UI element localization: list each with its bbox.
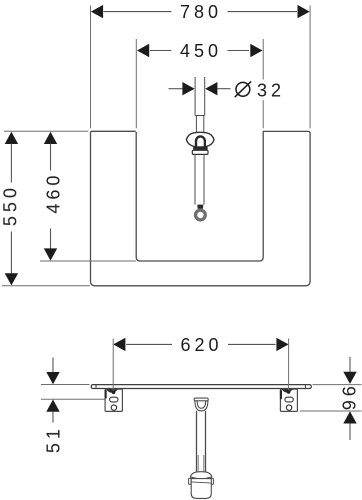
left bracket body: [105, 389, 122, 411]
left bracket screw hole: [111, 405, 116, 410]
trap cup body: [191, 479, 211, 499]
dimension 96 top extension line: [313, 384, 362, 386]
trap cup collar: [191, 472, 212, 479]
dimension Ø32 right tail line: [217, 88, 230, 90]
extension line left (450 dim, x=136.3): [135, 39, 137, 128]
dimension 780 left arrow: [91, 5, 103, 18]
dimension 96 bottom extension line: [300, 410, 362, 412]
trap inlet flange: [194, 398, 208, 401]
svg-text:780: 780: [180, 2, 222, 22]
right bracket slot: [285, 397, 293, 402]
diameter symbol: [236, 82, 250, 96]
extension line bottom left (550, y=285.8): [2, 285, 90, 287]
dimension Ø32 left arrow: [182, 82, 194, 95]
pull rod upper section / Ø32 extension lines: [194, 77, 196, 116]
dimension 620 line segments: [126, 343, 172, 345]
svg-text:620: 620: [180, 335, 222, 355]
svg-text:460: 460: [44, 172, 64, 214]
extension line left (780 dim, x=90.5): [90, 6, 92, 129]
trap cup collar front edge: [191, 477, 212, 479]
rod end connector tab: [197, 205, 203, 209]
dimension 96 top arrow: [349, 357, 351, 372]
trap pipe: [196, 411, 198, 473]
svg-text:32: 32: [257, 80, 285, 100]
left bracket slot: [110, 397, 118, 402]
svg-text:450: 450: [180, 41, 222, 61]
waste fitting inner arch: [195, 135, 206, 147]
dimension Ø32 right arrow: [205, 82, 217, 95]
trap cup seam line: [191, 482, 211, 483]
dimension 51 bottom arrow: [46, 400, 59, 412]
plate right cap divider: [304, 385, 306, 389]
dimension 460 line segments: [50, 144, 52, 171]
trap cup left tab: [189, 478, 192, 484]
dimension 51 top arrow: [52, 358, 54, 373]
basin outer outline: [91, 131, 311, 285]
dimension Ø32 left tail line: [169, 88, 183, 90]
mounting plate: [91, 385, 311, 389]
extension line left (620 dim, x=113.2): [112, 339, 114, 392]
plate left cap divider: [95, 385, 97, 389]
extension line top left (550/460, y=131.3): [4, 130, 88, 132]
basin inner U cutout: [136, 132, 263, 261]
extension line 460 bottom (y=261): [40, 260, 136, 262]
waste fitting collar: [192, 150, 208, 154]
svg-text:550: 550: [0, 184, 20, 226]
left bracket clamp shadow: [106, 389, 118, 393]
extension line right (780 dim, x=310.1): [309, 6, 311, 129]
waste fitting dark band: [193, 147, 207, 150]
right bracket clamp shadow: [282, 389, 293, 392]
dimension 51 bottom extension line: [41, 398, 105, 400]
extension line right end dot: [287, 390, 291, 394]
dimension 620 left arrow: [113, 338, 125, 351]
waste fitting eye-shaped body: [186, 132, 214, 147]
dimension 550 line segments: [10, 144, 12, 183]
dimension 460 bottom arrow: [44, 248, 57, 260]
dimension 460 top arrow: [44, 132, 57, 144]
pull rod narrow section: [195, 116, 197, 133]
trap pipe inner lines: [197, 455, 199, 472]
dimension 620 right arrow: [276, 338, 288, 351]
extension line left end dot: [112, 391, 116, 395]
dimension 450 left arrow: [137, 44, 149, 57]
svg-text:96: 96: [340, 382, 360, 410]
dimension 550 bottom arrow: [5, 273, 18, 285]
trap inlet bell outer wall: [195, 401, 208, 411]
dimension 550 top arrow: [5, 132, 18, 144]
trap cup right tab: [211, 478, 214, 484]
pull rod lower section: [194, 154, 196, 204]
dimension 780 line segments: [104, 11, 172, 13]
extension line right (450 dim, x=263.2, broken by label): [262, 39, 264, 80]
svg-text:51: 51: [44, 425, 64, 453]
dimension 450 right arrow: [250, 44, 262, 57]
right bracket side pin: [280, 390, 282, 399]
rod end ring: [194, 209, 207, 222]
right bracket body: [280, 389, 297, 411]
left bracket side pin: [105, 390, 107, 399]
trap inlet bell inner wall: [197, 401, 206, 409]
right bracket screw hole: [286, 405, 291, 410]
dimension 450 line segments: [150, 50, 172, 52]
dimension 96 bottom arrow: [343, 411, 356, 423]
extension line right (620 dim, x=288.6): [288, 339, 290, 392]
dimension 780 right arrow: [298, 5, 310, 18]
pull rod joint line: [195, 115, 205, 117]
dimension 51 top extension line: [41, 384, 90, 386]
